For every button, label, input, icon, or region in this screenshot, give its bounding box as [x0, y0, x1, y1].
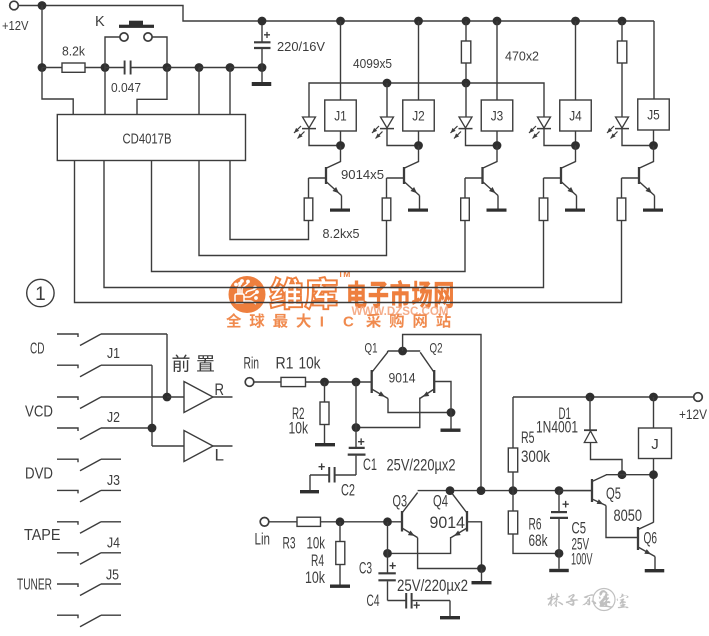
- rail output stage: [418, 490, 592, 492]
- wire J3 feed: [496, 21, 498, 100]
- node out rail x559: [555, 486, 564, 495]
- svg-text:J2: J2: [107, 410, 120, 426]
- capacitor C4 electrolytic: [388, 600, 407, 602]
- ground Q1Q2: [441, 429, 461, 432]
- svg-text:+12V: +12V: [679, 407, 707, 422]
- transistor Q1 (9014): [326, 146, 341, 169]
- switch row 3: [57, 397, 78, 400]
- svg-text:8.2k: 8.2k: [62, 44, 85, 59]
- relay J3: [481, 100, 513, 131]
- node pin b: [226, 63, 235, 72]
- svg-text:C: C: [343, 314, 354, 331]
- transistor Q5 (9014): [639, 146, 654, 169]
- svg-text:+: +: [562, 498, 569, 512]
- svg-text:R4: R4: [311, 552, 324, 570]
- wire LED3 cathode: [466, 129, 498, 146]
- svg-text:9014x5: 9014x5: [341, 167, 384, 182]
- wire pin199 drop: [198, 68, 200, 115]
- wire clock bend into IC: [137, 68, 167, 115]
- svg-text:I: I: [320, 314, 324, 331]
- svg-text:Lin: Lin: [255, 531, 271, 549]
- capacitor 0.047: [105, 67, 124, 69]
- node C1 top: [352, 423, 361, 432]
- wire pin230 drop: [229, 68, 231, 115]
- svg-text:C3: C3: [359, 560, 372, 578]
- node main line: [38, 63, 47, 72]
- LED D5 arrows: [607, 126, 614, 133]
- capacitor C1 electrolytic: [355, 382, 357, 447]
- transistor Q3 (9014): [401, 511, 403, 532]
- relay J2: [403, 100, 435, 131]
- resistor 8.2k base #1: [308, 178, 310, 198]
- svg-text:R1: R1: [276, 355, 294, 373]
- svg-text:TM: TM: [338, 269, 350, 279]
- node out rail x513: [509, 486, 518, 495]
- node out rail x450: [446, 486, 455, 495]
- node Q5 collector: [618, 470, 627, 479]
- Q4 emitter: [451, 528, 467, 538]
- LED D4: [538, 117, 551, 128]
- transistor Q5 (8050): [591, 479, 593, 502]
- svg-text:DVD: DVD: [25, 466, 53, 483]
- wire J4 feed: [575, 21, 577, 100]
- transistor Q3 (9014): [483, 146, 498, 169]
- ground of 220/16V cap: [252, 82, 272, 86]
- resistor R3 10k: [269, 521, 297, 523]
- wire L amp input: [152, 445, 184, 447]
- svg-text:8050: 8050: [614, 507, 643, 525]
- wire LED5 cathode: [622, 129, 654, 146]
- node after 8.2k: [101, 63, 110, 72]
- wire pin105 drop: [104, 68, 106, 115]
- svg-text:25V/220µx2: 25V/220µx2: [397, 577, 468, 595]
- wire LED2 cathode: [387, 129, 419, 146]
- node top rail x418.5: [414, 17, 423, 26]
- svg-text:L: L: [215, 447, 225, 465]
- svg-text:R3: R3: [283, 535, 296, 553]
- svg-text:J4: J4: [107, 536, 120, 552]
- terminal +12V (top left): [10, 1, 19, 10]
- LED D1: [303, 117, 316, 128]
- svg-text:+: +: [264, 28, 271, 42]
- node emitter gnd Q3Q4: [477, 564, 486, 573]
- node top rail x262: [258, 17, 267, 26]
- resistor R6 68k: [512, 491, 514, 511]
- svg-text:R5: R5: [521, 429, 535, 447]
- opamp L (preamp): [184, 431, 213, 462]
- svg-text:K: K: [95, 14, 105, 30]
- node collector J2: [414, 141, 423, 150]
- switch row 9: [57, 584, 78, 587]
- LED D3 arrows: [451, 126, 458, 133]
- node cap 220: [258, 63, 267, 72]
- opamp R (preamp): [184, 382, 213, 413]
- wire J1/J2 column: [151, 365, 153, 446]
- svg-text:100V: 100V: [571, 551, 593, 569]
- svg-text:TUNER: TUNER: [17, 577, 52, 594]
- relay J5: [638, 99, 670, 130]
- node collector J5: [649, 141, 658, 150]
- transistor Q4 (9014): [561, 146, 576, 169]
- svg-text:Q2: Q2: [430, 340, 443, 356]
- switch row 5: [57, 459, 78, 462]
- node top rail x622: [618, 17, 627, 26]
- svg-text:+12V: +12V: [2, 18, 29, 33]
- svg-text:25V/220µx2: 25V/220µx2: [387, 457, 456, 475]
- svg-text:R: R: [215, 381, 225, 399]
- Q2 base to ground node: [434, 382, 451, 413]
- svg-text:1: 1: [35, 284, 46, 305]
- svg-text:68k: 68k: [529, 532, 549, 550]
- node top rail x497: [493, 17, 502, 26]
- wire base bus #1: [230, 161, 309, 240]
- node clock: [163, 63, 172, 72]
- wire base bus #4: [104, 161, 544, 288]
- node R1/R2: [320, 378, 329, 387]
- Q2 emitter: [420, 389, 434, 399]
- wire CD column: [166, 334, 168, 397]
- svg-text:J1: J1: [334, 109, 347, 124]
- wire led3 anode: [465, 83, 467, 117]
- node Q3 base/C3: [383, 517, 392, 526]
- wire top feed: [18, 6, 654, 22]
- node top rail x340.5: [336, 17, 345, 26]
- svg-text:J4: J4: [569, 109, 582, 124]
- circled 1 (figure number): [27, 279, 54, 306]
- ground emitter Q5: [643, 209, 663, 212]
- Q3 emitter: [402, 528, 418, 538]
- node led rail b: [462, 79, 471, 88]
- svg-text:+: +: [318, 460, 325, 474]
- watermark logo circle (weiku/dzsc): [229, 276, 266, 313]
- wire J4 bottom: [575, 131, 577, 146]
- transistor Q2 (9014): [404, 146, 419, 169]
- switch row 7: [57, 522, 78, 525]
- svg-text:10k: 10k: [299, 355, 322, 373]
- svg-text:J1: J1: [107, 346, 120, 362]
- collector rail Q5/Q6: [606, 474, 654, 476]
- wire LED4 cathode: [544, 129, 576, 146]
- LED D1 arrows: [294, 126, 301, 133]
- rail +12V (bottom right): [513, 396, 694, 398]
- svg-text:Rin: Rin: [244, 355, 260, 373]
- node L amp input: [148, 424, 157, 433]
- capacitor 220/16V electrolytic: [261, 21, 263, 42]
- svg-text:C4: C4: [367, 592, 380, 610]
- resistor 8.2k base #3: [464, 178, 466, 198]
- ground emitter Q3: [487, 209, 507, 212]
- svg-text:+: +: [389, 559, 396, 573]
- IC CD4017B: [57, 115, 245, 161]
- switch row 8: [57, 553, 78, 556]
- svg-text:CD: CD: [30, 341, 45, 358]
- watermark slogan: [226, 313, 241, 327]
- ground emitter Q4: [565, 209, 585, 212]
- node collector J1: [336, 141, 345, 150]
- svg-text:C2: C2: [341, 482, 355, 500]
- svg-text:10k: 10k: [289, 420, 309, 438]
- node top rail x466: [462, 17, 471, 26]
- wire base bus #3: [152, 161, 466, 272]
- ground Q6: [645, 569, 665, 572]
- ground emitter Q2: [408, 209, 428, 212]
- wire reset notch into IC: [42, 68, 73, 115]
- node J bottom: [649, 470, 658, 479]
- watermark text weiku (outlined): [270, 277, 302, 309]
- relay J1: [325, 100, 357, 131]
- svg-text:Q5: Q5: [606, 485, 621, 503]
- wire J5 bottom: [653, 130, 655, 146]
- resistor R2 10k: [324, 382, 326, 402]
- resistor 8.2k: [42, 67, 62, 69]
- diode D1 1N4001: [586, 393, 595, 402]
- transistor Q1 (9014): [371, 370, 373, 393]
- svg-text:CD4017B: CD4017B: [123, 131, 172, 148]
- resistor 8.2k base #5: [621, 178, 623, 198]
- terminal Rin: [245, 378, 254, 387]
- svg-text:Q6: Q6: [644, 530, 658, 548]
- ground C2: [300, 490, 319, 493]
- resistor 470 #2: [621, 21, 623, 41]
- svg-text:1N4001: 1N4001: [536, 419, 578, 437]
- wire base bus #5: [75, 161, 622, 303]
- terminal +12V bottom: [694, 393, 703, 402]
- wire +12V drop: [41, 6, 43, 68]
- Q4 base to ground node: [467, 522, 482, 569]
- switch row 10: [57, 615, 78, 618]
- resistor R5 300k: [512, 397, 514, 448]
- LED D2 arrows: [372, 126, 379, 133]
- wire led2 anode: [386, 83, 388, 117]
- wire Q1Q2 output over: [403, 335, 481, 491]
- node R3/R4: [336, 517, 345, 526]
- node out rail x481: [477, 486, 486, 495]
- ground Q3Q4: [472, 581, 492, 584]
- svg-text:VCD: VCD: [25, 404, 53, 421]
- LED D2: [381, 117, 394, 128]
- resistor R4 10k: [339, 522, 341, 542]
- svg-text:J5: J5: [647, 108, 660, 123]
- wire J2 bottom: [418, 131, 420, 146]
- collector join Q1Q2: [388, 350, 421, 352]
- watermark text dianzishichangwang: [348, 281, 367, 309]
- capacitor C3 electrolytic: [387, 522, 389, 573]
- LED D5: [616, 117, 629, 128]
- node Q1 base/C1: [352, 378, 361, 387]
- svg-text:10k: 10k: [305, 569, 326, 587]
- svg-text:8.2kx5: 8.2kx5: [323, 226, 360, 241]
- relay J (output): [649, 393, 658, 402]
- node pin a: [195, 63, 204, 72]
- svg-text:10k: 10k: [307, 535, 326, 553]
- wire button left: [105, 37, 120, 68]
- wire J2 feed: [418, 21, 420, 100]
- transistor Q6 (8050): [637, 527, 639, 550]
- wire J5 feed (corner): [653, 21, 655, 99]
- switch row 6: [57, 490, 78, 493]
- node collector J4: [571, 141, 580, 150]
- ground C4: [440, 616, 460, 619]
- LED anode rail: [309, 83, 544, 117]
- svg-text:J2: J2: [412, 109, 425, 124]
- terminal Lin: [260, 518, 269, 527]
- node common emitter gnd Q1Q2: [447, 408, 456, 417]
- capacitor C2 electrolytic: [335, 474, 356, 476]
- ground C5: [549, 569, 569, 572]
- svg-text:J3: J3: [491, 109, 504, 124]
- resistor 470 #1: [465, 21, 467, 41]
- relay J4: [560, 100, 592, 131]
- transistor Q2 (9014): [433, 370, 435, 393]
- ground R2: [315, 443, 335, 446]
- ground R4: [330, 585, 350, 588]
- svg-text:9014: 9014: [430, 514, 466, 532]
- svg-text:220/16V: 220/16V: [277, 39, 325, 54]
- capacitor C5 electrolytic: [558, 491, 560, 512]
- svg-text:4099x5: 4099x5: [353, 56, 392, 71]
- svg-text:J: J: [651, 436, 659, 453]
- wire J1 bottom: [340, 131, 342, 146]
- LED D4 arrows: [529, 126, 536, 133]
- svg-text:Q4: Q4: [433, 493, 448, 511]
- svg-text:0.047: 0.047: [111, 80, 141, 95]
- node C5 bottom: [555, 549, 564, 558]
- svg-text:C1: C1: [363, 456, 377, 474]
- svg-text:Q1: Q1: [365, 340, 378, 356]
- ground emitter Q1: [330, 209, 350, 212]
- transistor Q4 (9014): [466, 511, 468, 532]
- Q1 emitter: [372, 389, 388, 399]
- node top rail x575.5: [571, 17, 580, 26]
- wire base bus #2: [199, 161, 387, 256]
- svg-text:470x2: 470x2: [505, 49, 539, 64]
- wire J1 feed: [340, 21, 342, 100]
- svg-text:Q3: Q3: [393, 493, 408, 511]
- wire button right: [152, 37, 167, 68]
- node R amp input: [163, 393, 172, 402]
- svg-text:TAPE: TAPE: [24, 527, 61, 544]
- resistor R1 10k: [254, 381, 281, 383]
- node collector J3: [493, 141, 502, 150]
- node C3 top: [383, 549, 392, 558]
- resistor 8.2k base #4: [543, 178, 545, 198]
- svg-text:J3: J3: [107, 473, 120, 489]
- stamp text (bottom right): [547, 589, 628, 611]
- svg-text:R6: R6: [529, 516, 542, 534]
- wire J3 bottom: [496, 131, 498, 146]
- switch row 4: [57, 428, 78, 431]
- label qianzhi (preamp): [173, 354, 190, 372]
- svg-text:300k: 300k: [521, 448, 551, 466]
- LED D3: [459, 117, 472, 128]
- resistor 8.2k base #2: [386, 178, 388, 198]
- junction top-left: [38, 1, 47, 10]
- switch row 1: [57, 334, 78, 337]
- svg-text:9014: 9014: [389, 370, 416, 386]
- wire LED1 cathode: [309, 129, 341, 146]
- switch row 2: [57, 365, 78, 368]
- svg-text:J5: J5: [106, 568, 119, 584]
- node led rail a: [383, 79, 392, 88]
